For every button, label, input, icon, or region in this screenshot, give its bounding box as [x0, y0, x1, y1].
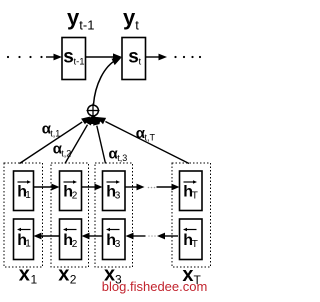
label backward h3 [106, 228, 121, 250]
svg-text:2: 2 [70, 273, 77, 287]
dashed column box T [172, 163, 211, 267]
attention arrow from hT to sum [97, 117, 190, 164]
label forward hT [183, 180, 198, 201]
backward arrow h3 to h2 [82, 233, 103, 240]
forward state box h2 [60, 171, 82, 211]
forward arrow gap to hT [157, 184, 180, 191]
forward arrow h2 to h3 [82, 184, 103, 191]
label forward h2 [63, 180, 78, 201]
backward arrow hT to gap [157, 233, 178, 240]
arrow s_t to right [146, 54, 168, 61]
backward state box h1 [14, 219, 34, 260]
svg-text:1: 1 [25, 190, 31, 201]
merged arrowhead cluster below sum [85, 116, 103, 124]
svg-text:2: 2 [72, 239, 78, 250]
svg-text:t,2: t,2 [61, 149, 71, 159]
svg-text:t,T: t,T [145, 132, 156, 142]
sum circle with plus [87, 104, 100, 118]
label forward h1 [17, 180, 31, 201]
forward arrow h1 to h2 [34, 184, 60, 191]
forward state box hT [180, 171, 203, 211]
arrow into s_t-1 [46, 54, 62, 61]
svg-text:x: x [58, 264, 69, 286]
svg-text:t,1: t,1 [50, 129, 60, 139]
svg-text:2: 2 [72, 191, 78, 202]
svg-text:T: T [192, 191, 198, 202]
box s_t [122, 38, 146, 80]
attention arrow from h3 to sum [93, 116, 105, 164]
backward state box hT [180, 219, 203, 260]
attention arrow from h2 to sum [65, 116, 93, 164]
label forward h3 [106, 180, 121, 201]
forward state box h1 [14, 171, 34, 211]
dashed column box 2 [51, 163, 89, 267]
svg-text:3: 3 [115, 239, 121, 250]
curved arrow from sum circle to s_t [94, 58, 122, 105]
svg-text:t-1: t-1 [74, 57, 85, 68]
forward row ellipsis [148, 187, 156, 189]
label backward hT [183, 228, 198, 250]
label backward h2 [63, 228, 78, 250]
svg-text:t: t [139, 57, 142, 68]
backward row ellipsis [148, 235, 156, 237]
backward arrow h2 to h1 [34, 233, 60, 240]
forward state box h3 [103, 171, 126, 211]
dashed column box 3 [95, 163, 133, 267]
svg-text:s: s [128, 46, 139, 67]
backward state box h3 [103, 219, 126, 260]
svg-text:T: T [192, 239, 198, 250]
forward arrow h3 to gap [125, 184, 145, 191]
box s_t-1 [62, 38, 86, 80]
svg-text:x: x [19, 264, 30, 286]
svg-text:t,3: t,3 [117, 153, 127, 163]
svg-text:1: 1 [25, 239, 31, 250]
svg-text:s: s [63, 46, 74, 67]
svg-text:1: 1 [31, 273, 38, 287]
arrow s_t-1 to s_t [86, 53, 123, 60]
backward arrow gap to h3 [126, 233, 146, 240]
left ellipsis dots [7, 56, 43, 58]
svg-text:blog.fishedee.com: blog.fishedee.com [102, 279, 208, 294]
backward state box h2 [60, 219, 82, 260]
right ellipsis dots [174, 56, 201, 58]
svg-text:3: 3 [115, 191, 121, 202]
attention arrow from h1 to sum [20, 117, 91, 164]
dashed column box 1 [4, 163, 43, 267]
label backward h1 [17, 228, 31, 250]
